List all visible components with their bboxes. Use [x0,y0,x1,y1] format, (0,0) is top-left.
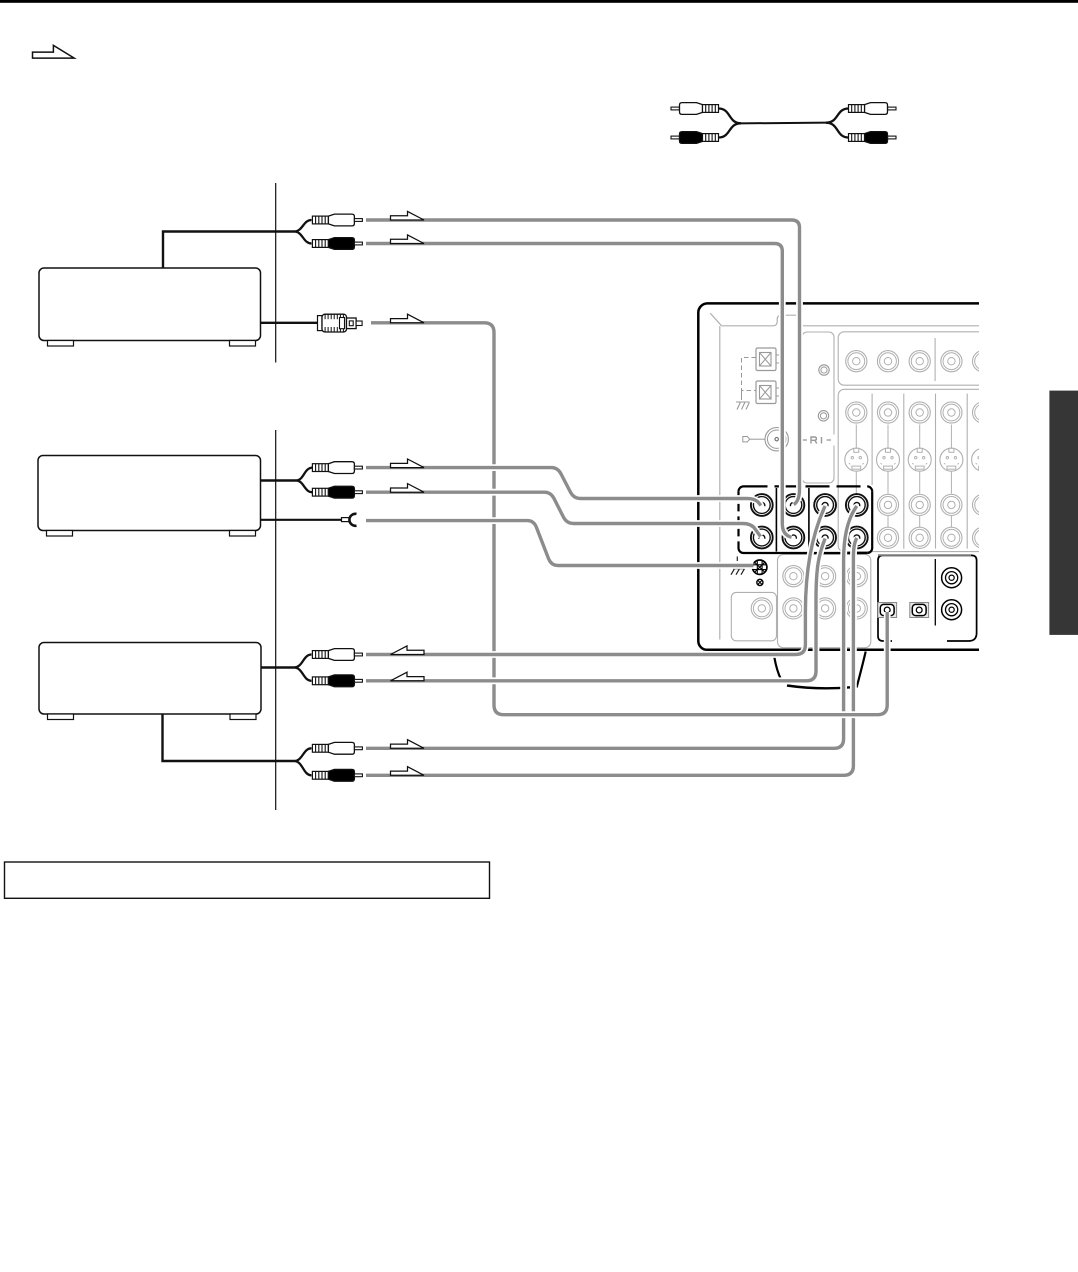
page edge tab [1049,391,1078,635]
plug white tape play [312,742,362,754]
plug black cd [312,486,362,498]
jack group separator 1 [775,488,777,552]
component3 cable trunk A [261,655,312,681]
component box 2 [38,456,261,537]
arrow optical [391,314,425,323]
jack TAPE IN L [846,494,868,516]
jack MD/TAPE IN L [751,494,773,516]
wire cd ground [366,521,754,566]
wire tape out R [366,539,825,681]
plug black tape rec [312,675,362,687]
wire tape in L [366,506,857,748]
digital box separator [934,559,936,626]
optical cable [371,323,887,715]
ground terminal [753,560,767,574]
panel screw A [819,365,829,375]
wire cd L [366,468,761,506]
dash above ground symbol [736,557,738,562]
FM antenna connector [743,428,789,451]
wire cd R [366,492,761,536]
jack MD/TAPE OUT R [783,527,805,549]
arrow md L [391,211,425,220]
optical jack DIGITAL OUT [910,603,929,618]
panel right foot [857,652,866,688]
panel bevel and light sections [710,313,994,648]
plug black md [312,238,362,250]
top rule [0,0,1078,3]
optical jack DIGITAL IN [878,603,897,618]
component1 optical lead [261,322,319,324]
wire tape out L [366,506,825,655]
component box 1 [39,268,261,346]
component1 cable trunk [163,220,312,268]
reference line lower [275,430,277,810]
plug white cd [312,462,362,474]
arrow tape in R [391,767,425,776]
RI label [800,435,836,446]
arrow cd L [391,459,425,468]
receiver panel outline [698,303,979,649]
panel left foot [774,657,781,680]
arrow tape out L [391,646,425,655]
component box 3 [39,643,261,720]
jack MD/TAPE IN R [783,494,805,516]
jack MD/TAPE OUT L [751,527,773,549]
arrow cd R [391,484,425,493]
tape/md jack group box [739,486,873,553]
optical plug [318,314,363,332]
panel screw B [818,411,828,421]
coax digital jack 2 [942,600,962,620]
wire md L [366,220,800,505]
reference line upper [275,183,277,363]
speaker/antenna terminals [736,348,780,410]
jack TAPE OUT L [814,494,836,516]
component3 cable trunk B [163,714,312,775]
wire md R [366,244,792,538]
RCA example cable [671,103,896,144]
plug white tape rec [312,649,362,661]
arrow tape out R [391,672,425,681]
plug black tape play [312,769,362,781]
wire tape in R [366,538,857,775]
note box [5,862,490,898]
ground spade lug [342,514,357,526]
ground symbol [731,569,745,575]
plug white md [312,214,362,226]
jack TAPE IN R [846,527,868,549]
component2 ground lead [261,519,342,521]
coax digital jack 1 [942,568,962,588]
jack TAPE OUT R [814,527,836,549]
component2 cable trunk [261,468,313,493]
arrow tape in L [391,740,425,749]
jack group separator 2 [808,488,810,552]
digital section box [878,555,977,641]
arrow md R [391,235,425,244]
ground screw [757,579,763,585]
panel foot base [787,686,851,689]
section arrow icon [33,45,75,58]
